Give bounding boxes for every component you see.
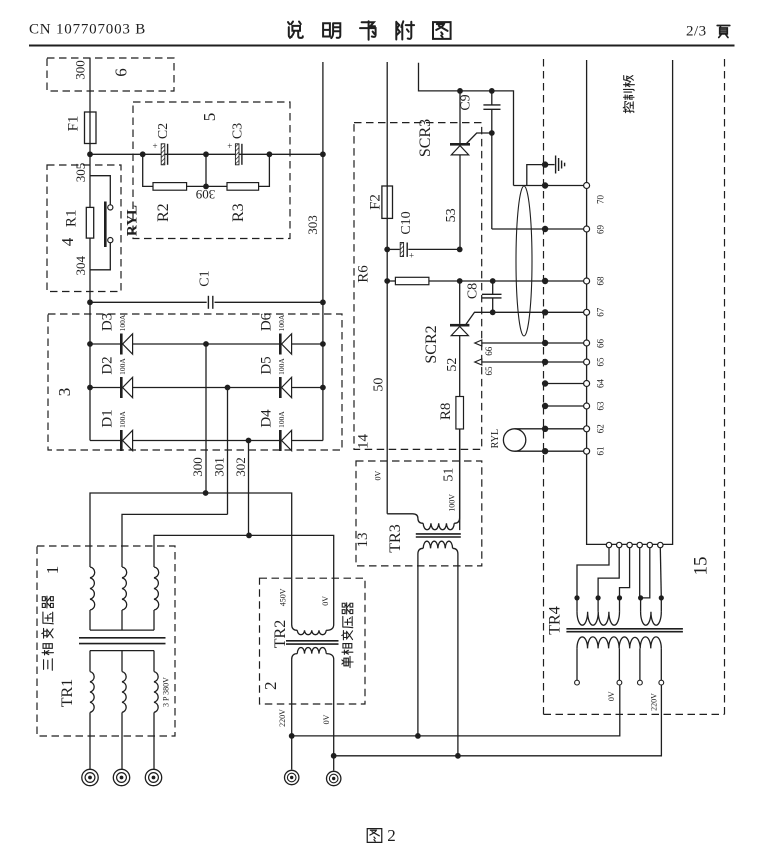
transformer TR1 secondary windings: [89, 651, 91, 672]
rail TR2-220V to TR4-0V: [292, 685, 620, 736]
junction dot TR2 0V to rail: [331, 753, 337, 759]
transformer TR4 primary windings: [576, 598, 578, 612]
TR2 secondary leads: [291, 661, 293, 770]
svg-text:14: 14: [356, 434, 372, 450]
svg-text:52: 52: [445, 358, 460, 372]
svg-text:67: 67: [596, 307, 606, 317]
fuse F2: [382, 186, 393, 218]
terminal row stubs to control board: [545, 185, 587, 187]
caption 图2: [367, 829, 382, 843]
svg-text:D5: D5: [259, 356, 275, 374]
svg-text:305: 305: [73, 163, 88, 183]
capacitor C1: [207, 296, 209, 309]
wire 302 from bridge: [248, 441, 250, 536]
svg-text:4: 4: [58, 237, 77, 246]
svg-text:2: 2: [261, 681, 280, 690]
cable bundle ellipse: [516, 186, 532, 336]
block 14 dashed box: [354, 123, 482, 450]
wire 300 from bridge: [205, 344, 207, 493]
svg-text:+: +: [152, 141, 157, 151]
label 三相变压器 (hand-drawn CJK, rotated): [44, 659, 53, 671]
wire 300 vertical into F1: [89, 58, 91, 112]
diode D4: [279, 430, 282, 451]
svg-text:61: 61: [596, 447, 606, 456]
transformer TR3 primary winding: [423, 523, 454, 529]
bridge row wires: [90, 343, 323, 345]
svg-text:300: 300: [190, 457, 205, 477]
svg-text:R2: R2: [155, 203, 172, 222]
junction dots on main bus: [140, 151, 146, 157]
capacitor C9: [491, 91, 493, 105]
fuse F1: [85, 112, 97, 144]
transformer TR4 secondary winding: [577, 637, 661, 649]
TR3 secondary leads to rails: [417, 554, 419, 736]
svg-text:301: 301: [212, 457, 227, 477]
svg-text:70: 70: [596, 195, 606, 205]
capacitor C3 (polarized): [235, 144, 239, 165]
terminal junction dots (x=545): [542, 161, 548, 167]
thyristor SCR3: [459, 91, 461, 143]
svg-text:304: 304: [73, 256, 88, 276]
svg-text:53: 53: [444, 208, 459, 222]
svg-text:D4: D4: [259, 409, 275, 428]
svg-text:13: 13: [355, 533, 371, 548]
relay contact branch wire: [90, 176, 110, 205]
node 305 junction: [87, 151, 93, 157]
svg-text:2/3: 2/3: [686, 24, 707, 40]
junction dots C1 row: [87, 299, 93, 305]
svg-text:C9: C9: [458, 94, 473, 110]
block 5 dashed box: [133, 102, 290, 239]
svg-text:100V: 100V: [447, 494, 456, 512]
svg-text:R3: R3: [230, 203, 247, 222]
svg-text:6: 6: [112, 68, 131, 77]
svg-text:100A: 100A: [277, 314, 286, 331]
svg-text:R6: R6: [356, 265, 372, 283]
diode D6: [279, 334, 282, 355]
svg-text:3: 3: [55, 388, 74, 397]
wire main DC bus y=154: [90, 153, 323, 155]
svg-text:R8: R8: [438, 403, 454, 421]
svg-text:303: 303: [305, 215, 320, 235]
thyristor SCR2: [459, 281, 461, 324]
TR4 primary junction dots: [574, 595, 579, 600]
resistor R3: [206, 185, 227, 187]
TR1 core: [79, 637, 166, 639]
label 单相变压器 (hand-drawn CJK, rotated): [342, 656, 353, 667]
svg-text:F1: F1: [66, 116, 82, 132]
svg-text:0V: 0V: [607, 691, 616, 701]
block 3 dashed box: [48, 314, 342, 450]
svg-text:100A: 100A: [118, 411, 127, 428]
TR2 output terminals: [285, 770, 299, 784]
svg-text:309: 309: [196, 187, 216, 202]
svg-text:0V: 0V: [322, 714, 331, 724]
svg-text:+: +: [409, 251, 414, 261]
svg-text:68: 68: [596, 276, 606, 286]
resistor R6 row (node 68 wire): [387, 280, 395, 282]
svg-text:100A: 100A: [277, 411, 286, 428]
node 309 junction: [203, 184, 209, 190]
svg-text:65: 65: [596, 357, 606, 367]
svg-text:220V: 220V: [650, 693, 659, 711]
svg-text:100A: 100A: [118, 314, 127, 331]
relay coil RYL: [503, 429, 525, 451]
svg-text:51: 51: [442, 468, 457, 482]
svg-text:SCR2: SCR2: [423, 325, 440, 363]
svg-text:300: 300: [73, 60, 88, 80]
svg-text:65: 65: [484, 366, 494, 376]
svg-text:5: 5: [200, 113, 219, 122]
svg-text:50: 50: [372, 378, 387, 392]
wire 50 vertical bus: [386, 62, 388, 186]
svg-text:+: +: [227, 141, 232, 151]
arrow input 65: [475, 359, 482, 365]
transformer TR2 secondary winding: [292, 654, 298, 661]
ground symbol: [545, 164, 555, 166]
svg-text:C3: C3: [231, 123, 246, 139]
ground branch wire: [527, 165, 545, 186]
arrow input 66: [475, 340, 482, 346]
TR1 output terminals: [82, 769, 98, 785]
svg-text:D3: D3: [100, 313, 116, 331]
TR3 primary lead: [387, 514, 423, 524]
svg-text:63: 63: [596, 401, 606, 411]
svg-text:D6: D6: [259, 312, 275, 331]
wire F1 to node 305: [89, 144, 91, 155]
diode D3: [120, 334, 123, 355]
block 13 dashed box: [356, 461, 482, 566]
diode D1: [120, 430, 123, 451]
TR4 secondary leads: [576, 648, 578, 680]
block 1 dashed box: [37, 546, 175, 736]
svg-text:100A: 100A: [277, 358, 286, 375]
wire x=90 through R1: [89, 154, 91, 302]
svg-text:3 P 380V: 3 P 380V: [162, 677, 171, 707]
R6 row junction dots: [384, 278, 390, 284]
transformer TR2 primary winding: [292, 618, 298, 630]
svg-text:302: 302: [233, 457, 248, 477]
label 控制板 (hand-drawn CJK, rotated): [623, 101, 634, 112]
wire 301 from bridge: [227, 388, 229, 515]
header: title 说明书附图 (hand-drawn CJK): [288, 22, 303, 38]
junction dot TR2 220V to rail: [289, 733, 295, 739]
resistor R1: [86, 207, 93, 238]
TR4 pin wires: [577, 548, 609, 598]
left bus of bridge: [89, 302, 91, 440]
svg-text:D2: D2: [100, 356, 116, 374]
header rule: [29, 45, 735, 47]
wire 303 vertical bus: [322, 62, 324, 441]
svg-text:62: 62: [596, 424, 606, 433]
wire y=535 to TR1 phase3 and TR2 0V: [154, 535, 334, 618]
wire y=514 to TR1 phase2: [122, 514, 228, 567]
block 15 dashed box (open at top): [543, 59, 545, 714]
svg-text:TR3: TR3: [387, 524, 404, 552]
svg-text:15: 15: [691, 557, 712, 576]
wire SCR3 gate to node 69: [491, 133, 493, 229]
svg-text:C1: C1: [198, 270, 213, 286]
svg-text:0V: 0V: [374, 470, 383, 480]
TR1 secondary bus: [90, 650, 154, 652]
svg-text:F2: F2: [368, 194, 384, 210]
TR4 core: [566, 628, 683, 630]
svg-text:220V: 220V: [278, 709, 287, 727]
SCR2 gate wire to node 67: [466, 312, 545, 324]
wire C10 row: [387, 248, 400, 250]
TR4 secondary terminals: [575, 680, 580, 685]
transformer TR1 primary windings: [90, 567, 95, 610]
svg-text:CN 107707003 B: CN 107707003 B: [29, 22, 146, 38]
transformer TR3 secondary winding: [418, 548, 423, 554]
control board pin circles: [584, 183, 590, 189]
control board outline: [587, 60, 673, 544]
bridge junction dots: [87, 341, 93, 347]
diode D2: [120, 377, 123, 398]
svg-text:450V: 450V: [279, 588, 288, 606]
svg-text:64: 64: [596, 379, 606, 389]
svg-text:TR4: TR4: [546, 606, 563, 634]
svg-text:C2: C2: [156, 123, 171, 139]
svg-text:C8: C8: [466, 283, 481, 299]
svg-text:R1: R1: [64, 210, 80, 228]
SCR3 gate wire: [467, 133, 492, 144]
C10 junction dots: [384, 247, 390, 253]
svg-text:66: 66: [484, 346, 494, 356]
block 4 dashed box: [47, 165, 121, 292]
block 6 dashed box: [47, 58, 174, 91]
capacitor C8: [492, 281, 494, 294]
svg-text:1: 1: [43, 566, 62, 575]
rail TR2-0V to TR4-220V: [334, 685, 662, 756]
TR3 core: [416, 533, 461, 535]
svg-text:SCR3: SCR3: [417, 119, 434, 157]
svg-text:RYL: RYL: [490, 429, 501, 448]
svg-text:0V: 0V: [321, 596, 330, 606]
resistor R2: [143, 154, 153, 186]
svg-text:100A: 100A: [118, 358, 127, 375]
diode D5: [279, 377, 282, 398]
svg-text:D1: D1: [100, 409, 116, 427]
relay contact RYL (circles and blade): [108, 205, 113, 210]
block 2 dashed box: [260, 578, 366, 704]
resistor R8: [456, 397, 464, 430]
control board pin connector circles: [606, 542, 611, 547]
svg-text:66: 66: [596, 339, 606, 349]
svg-text:TR1: TR1: [59, 679, 76, 707]
top wire to SCR3 anode: [419, 63, 514, 186]
svg-text:C10: C10: [399, 211, 414, 234]
TR1 primary star bus: [90, 629, 154, 631]
wire y=493 to TR1 phase1 and TR2 450V: [90, 493, 292, 618]
TR2 core: [286, 640, 339, 642]
svg-text:69: 69: [596, 225, 606, 235]
svg-text:2: 2: [387, 826, 396, 845]
capacitor C10 (polarized): [400, 243, 403, 257]
junction dots top wire: [457, 88, 463, 94]
wire y=302 (C1 row): [90, 301, 207, 303]
capacitor C2 (polarized): [161, 144, 165, 165]
wire node70 from top wire: [514, 185, 546, 187]
